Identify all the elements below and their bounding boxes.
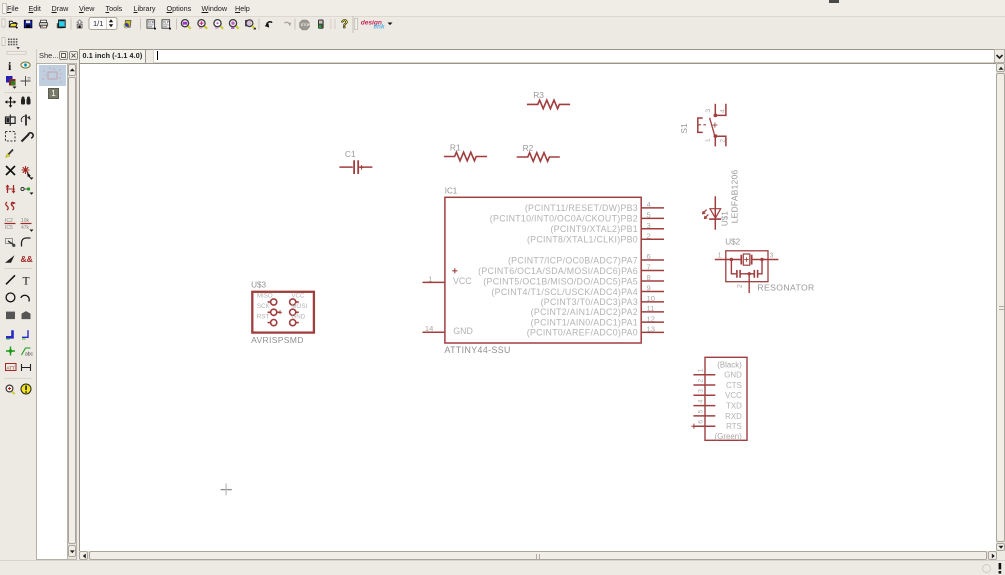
capacitor C1: [339, 160, 372, 174]
split icon: [5, 255, 15, 263]
group icon: [6, 132, 16, 142]
svg-text:47k: 47k: [21, 225, 30, 231]
separator: [259, 19, 260, 30]
svg-text:link: link: [374, 24, 385, 31]
value icon: [21, 218, 34, 232]
separator: [176, 19, 177, 30]
svg-text:12: 12: [647, 314, 655, 323]
svg-text:8: 8: [647, 273, 651, 282]
svg-text:RESONATOR: RESONATOR: [757, 282, 814, 292]
separator: [4, 268, 32, 269]
svg-text:(PCINT4/T1/SCL/USCK/ADC4)PA4: (PCINT4/T1/SCL/USCK/ADC4)PA4: [491, 287, 638, 297]
polygon icon: [22, 311, 31, 319]
resistor R1: [444, 152, 487, 161]
svg-text:3: 3: [770, 253, 774, 260]
pinswap icon: [6, 185, 16, 194]
svg-text:9: 9: [647, 284, 651, 293]
svg-text:IC5: IC5: [5, 225, 13, 231]
circle icon: [6, 293, 15, 302]
FTDI pin 5 wire: [693, 415, 715, 417]
U$2 pin 3 wire: [752, 259, 779, 261]
svg-text:3: 3: [697, 389, 704, 393]
svg-text:3: 3: [705, 109, 712, 113]
svg-text:(PCINT3/T0/ADC3)PA3: (PCINT3/T0/ADC3)PA3: [541, 297, 638, 307]
separator: [71, 19, 72, 30]
S1 bottom contact junction: [714, 134, 718, 138]
U$3 pad RST: [268, 320, 277, 326]
label icon: [22, 348, 34, 358]
rotate icon: [21, 115, 30, 126]
FTDI header box: [705, 357, 747, 440]
toolbar row 1 icons drawn in one SVG: [0, 16, 1005, 49]
zoom out: [214, 20, 223, 29]
svg-text:(PCINT11/RESET/DW)PB3: (PCINT11/RESET/DW)PB3: [525, 203, 638, 213]
dimension icon: [22, 364, 31, 371]
FTDI origin cross: [691, 424, 696, 429]
row 3: sheets header / coord / command: [36, 49, 79, 63]
canvas: [79, 63, 996, 551]
svg-text:RXD: RXD: [725, 412, 742, 421]
toolbar grip: [2, 19, 5, 27]
IC1 right pin stubs: [641, 208, 664, 333]
svg-text:7: 7: [647, 263, 651, 272]
separator: [4, 92, 32, 93]
U$3 pad MOSI: [290, 309, 299, 315]
U$2 pin 1 wire: [715, 259, 742, 261]
svg-text:SCK: SCK: [257, 303, 271, 310]
S1 pin 2 wire: [715, 136, 726, 146]
two thin separators: [330, 19, 331, 29]
LED U$1: [709, 196, 721, 229]
svg-text:(PCINT10/INT0/OC0A/CKOUT)PB2: (PCINT10/INT0/OC0A/CKOUT)PB2: [490, 214, 638, 224]
svg-text:U$1: U$1: [721, 211, 730, 226]
separator: [4, 378, 32, 379]
svg-text:(PCINT9/XTAL2)PB1: (PCINT9/XTAL2)PB1: [550, 224, 638, 234]
add icon: [22, 166, 34, 180]
resistor R3: [527, 100, 570, 109]
FTDI pin numbers 1-6: [697, 368, 704, 424]
IC1 left pin numbers 1 and 14: [425, 274, 433, 333]
svg-text:RST: RST: [257, 314, 270, 321]
svg-text:(Black): (Black): [717, 360, 742, 369]
open icon: [9, 21, 17, 28]
move icon: [5, 96, 17, 108]
svg-text:VCC: VCC: [453, 276, 472, 286]
attribute icon: [6, 364, 17, 371]
svg-text:5: 5: [647, 211, 651, 220]
S1 pin 1 wire: [714, 136, 716, 146]
svg-text:(Green): (Green): [715, 432, 743, 441]
S1 pin 3 wire: [714, 104, 716, 116]
U$3 pad MISO: [268, 299, 277, 305]
svg-text:4: 4: [697, 399, 704, 403]
svg-text:(PCINT6/OC1A/SDA/MOSI/ADC6)PA6: (PCINT6/OC1A/SDA/MOSI/ADC6)PA6: [478, 266, 638, 276]
redo (disabled): [284, 22, 291, 25]
svg-text:STOP: STOP: [301, 23, 311, 27]
svg-text:U$2: U$2: [725, 238, 740, 247]
svg-text:(PCINT1/AIN0/ADC1)PA1: (PCINT1/AIN0/ADC1)PA1: [531, 317, 638, 327]
IC1 port PB pin names: [490, 203, 638, 244]
IC1 VCC pin name with polarity cross: [452, 268, 457, 273]
traffic light icon: [318, 20, 323, 29]
toolbar2 grip: [2, 38, 5, 46]
svg-text:5: 5: [697, 409, 704, 413]
smash icon: [6, 239, 16, 247]
separator full: [353, 16, 354, 33]
FTDI pin 2 wire: [693, 384, 715, 386]
zoom in: [198, 20, 207, 29]
svg-text:1: 1: [428, 274, 432, 283]
separator: [295, 19, 296, 30]
svg-text:C1: C1: [345, 149, 356, 159]
display layers icon: [6, 76, 17, 89]
svg-text:(PCINT5/OC1B/MISO/DO/ADC5)PA5: (PCINT5/OC1B/MISO/DO/ADC5)PA5: [483, 276, 638, 286]
bus icon: [6, 330, 13, 339]
net icon: [22, 330, 28, 339]
svg-text:i: i: [8, 59, 12, 73]
svg-text:4: 4: [719, 109, 726, 113]
cut icon: [6, 150, 14, 158]
svg-text:1: 1: [718, 253, 722, 260]
svg-text:S1: S1: [679, 123, 689, 134]
sheet icon: [77, 20, 82, 28]
svg-text:14: 14: [425, 324, 433, 333]
board icon: [124, 20, 131, 28]
node junction bottom: [748, 272, 751, 275]
svg-text:&&: &&: [21, 254, 33, 264]
svg-text:RTS: RTS: [726, 422, 742, 431]
svg-text:VCC: VCC: [291, 293, 305, 300]
svg-text:ATTINY44-SSU: ATTINY44-SSU: [445, 345, 511, 355]
svg-text:13: 13: [647, 325, 655, 334]
svg-text:VCC: VCC: [725, 391, 742, 400]
switch S1: [698, 118, 718, 136]
show icon (eye): [21, 62, 30, 68]
svg-text:2: 2: [647, 231, 651, 240]
header U$3 AVRISPSMD box: [252, 292, 314, 333]
gateswap icon: [6, 202, 15, 210]
errors icon: [21, 384, 31, 394]
svg-text:GND: GND: [453, 326, 473, 336]
FTDI pin 1 wire: [693, 374, 715, 376]
resonator U$2 box: [726, 251, 768, 282]
rect icon: [6, 312, 15, 320]
miter icon: [22, 238, 31, 247]
sheets dock: [36, 63, 68, 560]
U$3 pad GND: [290, 320, 299, 326]
mouse crosshair cursor: [221, 484, 232, 496]
cam icon: [57, 20, 65, 29]
U$2 crystal body: [743, 254, 750, 265]
svg-text:U$3: U$3: [251, 281, 266, 290]
erc icon: [6, 385, 15, 394]
junction icon: [6, 347, 15, 356]
svg-text:6: 6: [647, 252, 651, 261]
IC1 left pin stubs (pins 1, 14): [423, 282, 445, 332]
U$2 internal wire middle: [740, 273, 754, 275]
FTDI pin 4 wire: [693, 405, 715, 407]
svg-text:2: 2: [737, 284, 744, 288]
svg-text:TXD: TXD: [726, 402, 742, 411]
wire icon: [6, 275, 15, 284]
sheet spinbox: [89, 18, 117, 30]
svg-text:1/1: 1/1: [93, 19, 103, 28]
script icon 2: [162, 20, 171, 30]
name icon: [5, 218, 16, 231]
resistor R2: [517, 153, 560, 162]
svg-text:(PCINT8/XTAL1/CLKI)PB0: (PCINT8/XTAL1/CLKI)PB0: [527, 235, 638, 245]
mark icon: [21, 76, 31, 86]
U$2 internal wire right: [758, 260, 762, 274]
stop sign (disabled): [300, 20, 311, 30]
arc icon: [21, 294, 31, 302]
U$3 pad VCC: [290, 299, 299, 305]
svg-text:MISO: MISO: [257, 293, 273, 300]
svg-text:10: 10: [647, 294, 655, 303]
U$2 cap right plates: [754, 270, 757, 278]
FTDI pin 6 wire: [693, 425, 715, 427]
script icon 1: [147, 20, 156, 30]
svg-text:R3: R3: [533, 90, 544, 100]
node junction left: [730, 258, 733, 261]
U$3 pad names: [257, 293, 308, 321]
grip: [355, 19, 358, 30]
print icon: [39, 20, 47, 28]
U$2 cap left plates: [737, 270, 740, 278]
S1 pin 4 wire: [715, 104, 726, 116]
svg-text:MOSI: MOSI: [291, 303, 307, 310]
left tool palette: [0, 49, 37, 559]
LED U$1 light arrows: [702, 210, 708, 219]
svg-text:(PCINT2/AIN1/ADC2)PA2: (PCINT2/AIN1/ADC2)PA2: [531, 307, 638, 317]
zoom select: [229, 20, 238, 29]
svg-text:?: ?: [341, 19, 348, 31]
svg-text:(PCINT0/AREF/ADC0)PA0: (PCINT0/AREF/ADC0)PA0: [527, 328, 638, 338]
svg-text:(PCINT7/ICP/OC0B/ADC7)PA7: (PCINT7/ICP/OC0B/ADC7)PA7: [508, 255, 638, 265]
svg-text:GND: GND: [291, 314, 305, 321]
svg-text:1: 1: [697, 368, 704, 372]
IC1 right pin numbers: [647, 200, 655, 334]
svg-text:CTS: CTS: [726, 381, 742, 390]
svg-text:T: T: [23, 275, 30, 287]
svg-text:2: 2: [719, 139, 726, 143]
undo: [265, 22, 273, 28]
S1 top contact junction: [714, 114, 718, 118]
status bar: [0, 560, 1005, 575]
svg-text:IC1: IC1: [445, 186, 458, 195]
grid icon: [8, 39, 20, 50]
svg-text:6: 6: [697, 420, 704, 424]
svg-text:LEDFAB1206: LEDFAB1206: [730, 169, 740, 223]
U$2 crystal plates: [741, 255, 751, 265]
zoom redraw: [246, 20, 257, 30]
replace icon: [21, 187, 34, 194]
svg-text:AVRISPSMD: AVRISPSMD: [251, 335, 304, 345]
design link logo: [361, 20, 393, 31]
change icon: [22, 133, 34, 142]
delete icon: [6, 166, 15, 175]
svg-text:R1: R1: [450, 142, 461, 152]
mirror icon: [6, 115, 16, 126]
svg-text:3: 3: [647, 221, 651, 230]
IC1 port PA pin names: [478, 255, 638, 337]
svg-text:GND: GND: [724, 371, 742, 380]
save icon: [24, 20, 32, 28]
FTDI pin 3 wire: [693, 394, 715, 396]
U$2 pin 2 wire: [748, 274, 750, 293]
grip top: [7, 52, 26, 55]
U$2 origin cross: [744, 257, 749, 262]
menu bar: [0, 0, 1005, 17]
svg-text:11: 11: [647, 304, 655, 313]
svg-text:ATT: ATT: [7, 365, 16, 370]
svg-text:abc: abc: [25, 352, 34, 358]
U$3 pad SCK: [268, 309, 283, 315]
U$2 internal wire left: [731, 260, 737, 274]
scrollbars: [996, 63, 1005, 551]
IC1 ATTINY44-SSU box: [445, 197, 641, 343]
separator: [140, 19, 141, 30]
svg-text:1: 1: [705, 138, 712, 142]
node junction right: [760, 258, 763, 261]
copy icon: [21, 97, 31, 105]
zoom fit: [181, 20, 190, 29]
svg-text:4: 4: [647, 200, 651, 209]
svg-text:2: 2: [697, 379, 704, 383]
svg-text:R2: R2: [523, 143, 534, 153]
